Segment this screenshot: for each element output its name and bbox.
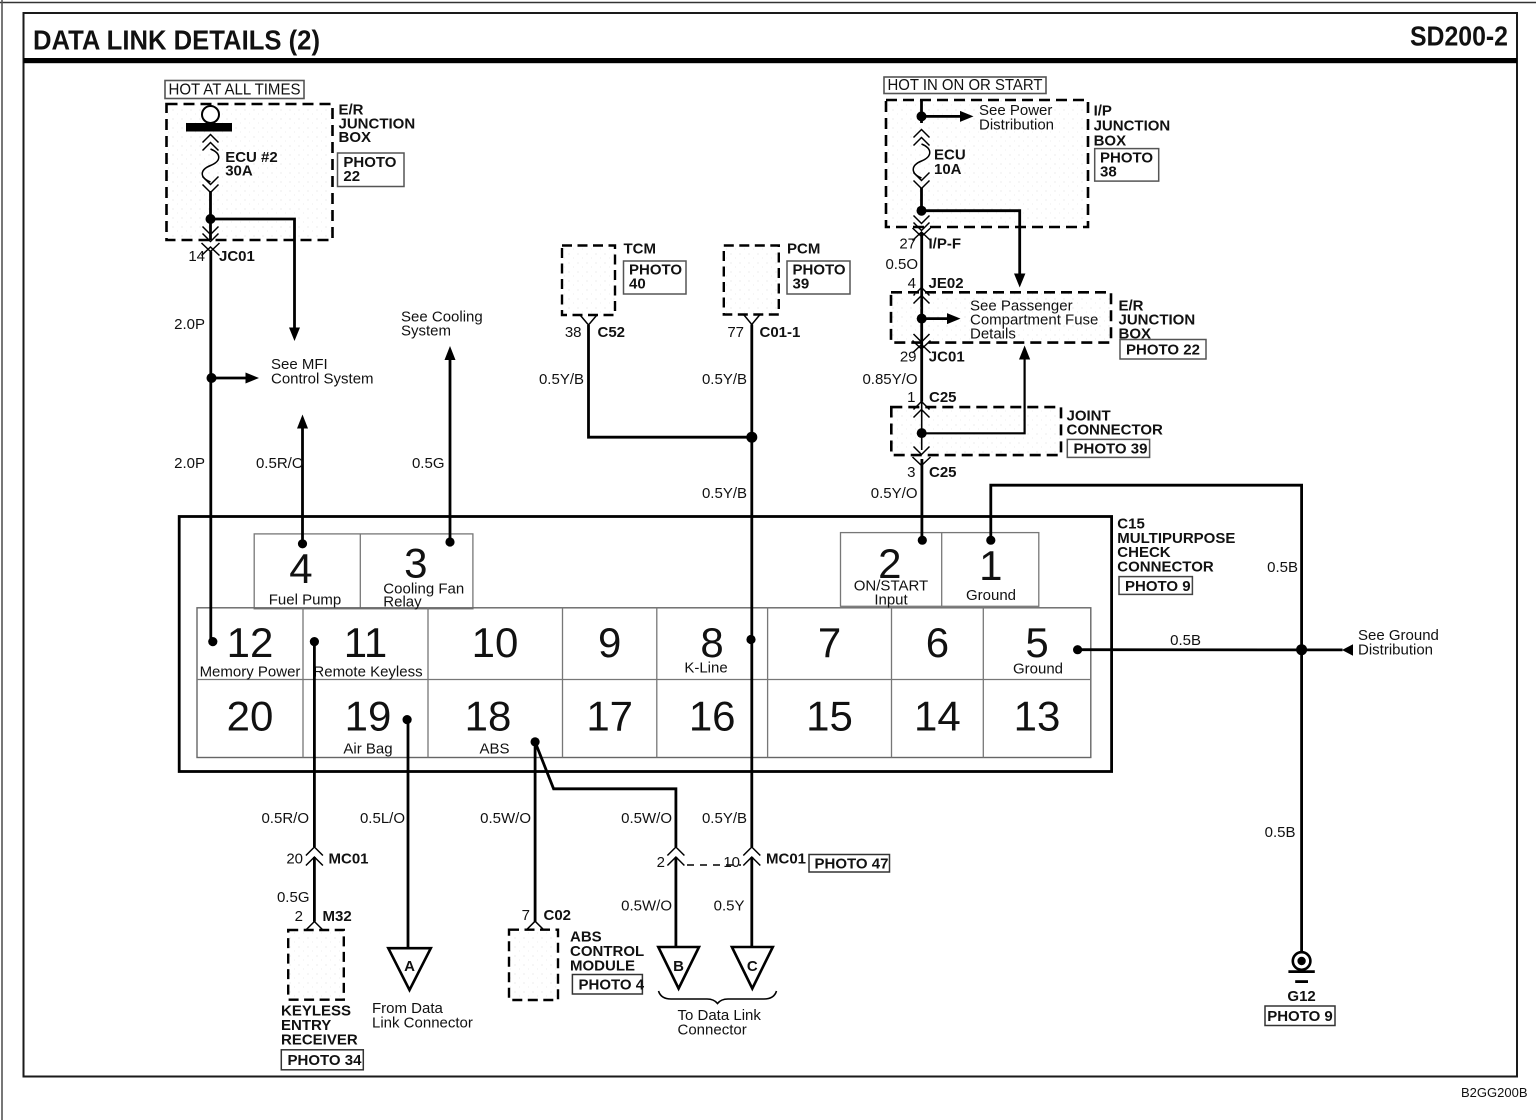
svg-text:Details: Details <box>970 326 1016 343</box>
svg-text:Ground: Ground <box>966 587 1016 604</box>
svg-text:7: 7 <box>522 907 530 924</box>
svg-text:17: 17 <box>586 693 633 740</box>
svg-text:Ground: Ground <box>1013 661 1063 678</box>
svg-text:0.5W/O: 0.5W/O <box>621 898 672 915</box>
svg-text:77: 77 <box>727 324 744 341</box>
svg-text:JE02: JE02 <box>929 275 964 292</box>
svg-text:Air Bag: Air Bag <box>343 741 392 758</box>
svg-text:2.0P: 2.0P <box>174 455 205 472</box>
svg-text:14: 14 <box>188 248 205 265</box>
svg-text:C52: C52 <box>598 324 626 341</box>
svg-text:18: 18 <box>465 693 512 740</box>
svg-text:B2GG200B: B2GG200B <box>1461 1085 1528 1100</box>
svg-text:PHOTO 34: PHOTO 34 <box>288 1052 363 1069</box>
svg-text:Connector: Connector <box>678 1022 747 1039</box>
svg-text:22: 22 <box>343 168 360 185</box>
svg-text:19: 19 <box>345 693 392 740</box>
svg-text:MC01: MC01 <box>329 851 369 868</box>
svg-text:3: 3 <box>907 464 915 481</box>
svg-text:0.5R/O: 0.5R/O <box>261 810 309 827</box>
svg-text:CONNECTOR: CONNECTOR <box>1067 422 1164 439</box>
svg-text:K-Line: K-Line <box>684 660 727 677</box>
svg-text:C01-1: C01-1 <box>760 324 801 341</box>
svg-text:PHOTO 47: PHOTO 47 <box>815 856 889 873</box>
svg-text:A: A <box>404 958 415 975</box>
svg-text:13: 13 <box>1014 693 1061 740</box>
svg-text:5: 5 <box>1025 619 1048 666</box>
svg-text:20: 20 <box>286 851 303 868</box>
svg-text:0.5O: 0.5O <box>885 256 918 273</box>
svg-text:MC01: MC01 <box>766 851 806 868</box>
svg-text:BOX: BOX <box>1094 133 1127 150</box>
svg-text:PHOTO 22: PHOTO 22 <box>1126 342 1200 359</box>
svg-text:0.5L/O: 0.5L/O <box>360 810 405 827</box>
svg-text:6: 6 <box>926 619 949 666</box>
svg-text:Distribution: Distribution <box>979 117 1054 134</box>
svg-text:DATA LINK DETAILS (2): DATA LINK DETAILS (2) <box>33 25 320 56</box>
svg-text:PHOTO 9: PHOTO 9 <box>1267 1008 1333 1025</box>
svg-text:0.5B: 0.5B <box>1170 632 1201 649</box>
svg-text:29: 29 <box>900 349 917 366</box>
svg-text:0.5W/O: 0.5W/O <box>480 810 531 827</box>
svg-text:I/P-F: I/P-F <box>929 236 962 253</box>
svg-text:System: System <box>401 323 451 340</box>
svg-text:C: C <box>747 958 758 975</box>
svg-text:C25: C25 <box>929 464 957 481</box>
svg-text:0.5Y/B: 0.5Y/B <box>702 371 747 388</box>
svg-text:40: 40 <box>629 276 646 293</box>
svg-text:C02: C02 <box>544 907 572 924</box>
svg-text:39: 39 <box>793 276 810 293</box>
svg-text:JC01: JC01 <box>929 349 965 366</box>
svg-text:4: 4 <box>908 275 916 292</box>
svg-text:PHOTO 39: PHOTO 39 <box>1074 441 1148 458</box>
svg-text:SD200-2: SD200-2 <box>1410 21 1508 52</box>
svg-text:9: 9 <box>598 619 621 666</box>
svg-text:2: 2 <box>657 854 665 871</box>
svg-text:HOT IN ON OR START: HOT IN ON OR START <box>888 77 1044 94</box>
svg-text:ABS: ABS <box>479 741 509 758</box>
svg-text:RECEIVER: RECEIVER <box>281 1032 358 1049</box>
svg-text:PCM: PCM <box>787 241 820 258</box>
svg-text:0.5G: 0.5G <box>412 455 445 472</box>
svg-text:0.5B: 0.5B <box>1265 824 1296 841</box>
svg-text:38: 38 <box>565 324 582 341</box>
svg-text:0.5G: 0.5G <box>277 889 310 906</box>
svg-text:B: B <box>673 958 684 975</box>
svg-text:38: 38 <box>1100 164 1117 181</box>
svg-text:1: 1 <box>979 542 1002 589</box>
svg-text:Relay: Relay <box>383 594 422 611</box>
svg-text:0.85Y/O: 0.85Y/O <box>862 371 917 388</box>
svg-text:Control System: Control System <box>271 371 374 388</box>
svg-text:27: 27 <box>899 236 916 253</box>
svg-text:PHOTO 4: PHOTO 4 <box>579 977 645 994</box>
svg-text:30A: 30A <box>225 163 253 180</box>
svg-text:16: 16 <box>689 693 736 740</box>
svg-text:3: 3 <box>404 539 427 586</box>
svg-text:MODULE: MODULE <box>570 958 635 975</box>
svg-text:JC01: JC01 <box>219 248 255 265</box>
svg-text:0.5W/O: 0.5W/O <box>621 810 672 827</box>
svg-text:Remote Keyless: Remote Keyless <box>313 664 422 681</box>
svg-text:CONNECTOR: CONNECTOR <box>1117 559 1214 576</box>
svg-text:2.0P: 2.0P <box>174 316 205 333</box>
svg-text:10A: 10A <box>934 161 962 178</box>
svg-text:0.5Y: 0.5Y <box>714 898 745 915</box>
svg-text:20: 20 <box>227 693 274 740</box>
svg-text:C25: C25 <box>929 389 957 406</box>
svg-text:Input: Input <box>874 592 908 609</box>
svg-text:Fuel Pump: Fuel Pump <box>269 592 342 609</box>
svg-text:7: 7 <box>818 619 841 666</box>
svg-text:TCM: TCM <box>624 241 657 258</box>
svg-text:0.5Y/O: 0.5Y/O <box>871 485 918 502</box>
svg-text:0.5R/O: 0.5R/O <box>256 455 304 472</box>
svg-text:0.5Y/B: 0.5Y/B <box>702 485 747 502</box>
svg-text:0.5Y/B: 0.5Y/B <box>539 371 584 388</box>
svg-text:PHOTO 9: PHOTO 9 <box>1125 578 1191 595</box>
svg-text:14: 14 <box>914 693 961 740</box>
svg-text:0.5B: 0.5B <box>1267 559 1298 576</box>
svg-text:HOT AT ALL TIMES: HOT AT ALL TIMES <box>169 82 301 99</box>
svg-text:BOX: BOX <box>339 129 372 146</box>
svg-text:0.5Y/B: 0.5Y/B <box>702 810 747 827</box>
svg-text:M32: M32 <box>323 908 352 925</box>
svg-text:15: 15 <box>806 693 853 740</box>
svg-text:10: 10 <box>472 619 519 666</box>
svg-text:4: 4 <box>289 545 312 592</box>
svg-text:1: 1 <box>907 389 915 406</box>
svg-text:Memory Power: Memory Power <box>200 664 301 681</box>
svg-text:2: 2 <box>295 908 303 925</box>
svg-text:11: 11 <box>344 619 388 666</box>
svg-text:Link Connector: Link Connector <box>372 1015 473 1032</box>
svg-text:10: 10 <box>723 854 740 871</box>
svg-text:12: 12 <box>227 619 274 666</box>
svg-text:Distribution: Distribution <box>1358 642 1433 659</box>
svg-text:G12: G12 <box>1287 988 1315 1005</box>
